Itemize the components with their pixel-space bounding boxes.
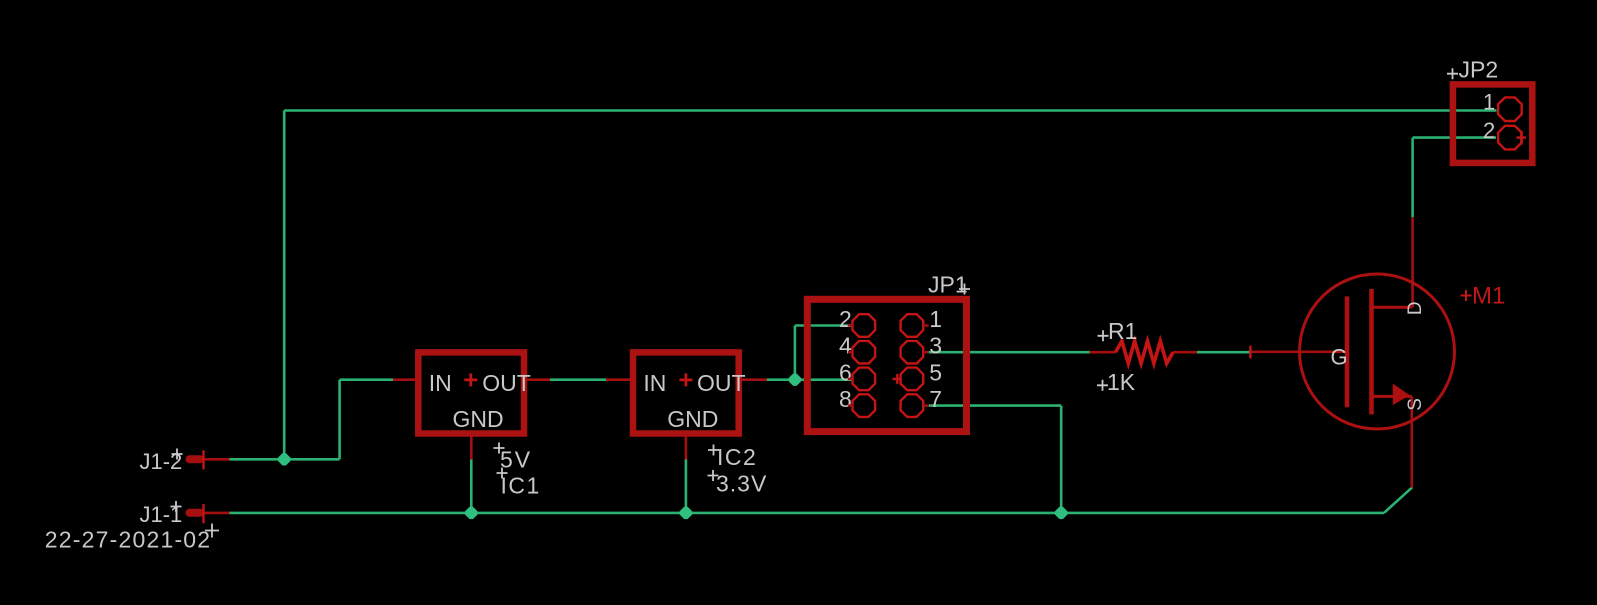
resistor R1 right lead: [1173, 351, 1197, 354]
svg-text:1K: 1K: [1107, 369, 1136, 395]
svg-text:OUT: OUT: [697, 370, 746, 396]
label JP2: [1447, 57, 1498, 83]
svg-text:IN: IN: [643, 370, 666, 396]
JP1 pin 2 circle: [853, 314, 876, 337]
M1 source branch: [1372, 395, 1412, 398]
wire horizontal to JP1 pin 2: [795, 324, 852, 327]
pin stub IC2 IN: [606, 378, 633, 381]
IC2 origin cross: [679, 373, 692, 386]
svg-text:D: D: [1405, 301, 1426, 315]
JP2 pin 2 circle: [1498, 126, 1522, 150]
M1 source arrow: [1394, 385, 1409, 404]
JP1 pin 1 circle: [901, 314, 924, 337]
JP1 pin 6 circle: [853, 368, 876, 391]
label JP1: [928, 272, 970, 298]
svg-text:GND: GND: [667, 406, 718, 432]
node junction IC2 OUT / JP1: [789, 374, 801, 386]
svg-text:R1: R1: [1108, 318, 1137, 344]
node junction VIN/J1-2: [278, 453, 290, 465]
flag J1-2: [186, 450, 205, 469]
svg-text:M1: M1: [1472, 283, 1505, 310]
svg-text:S: S: [1405, 398, 1426, 411]
pin lead J1-1 flag: [205, 512, 230, 515]
pin stub IC2 OUT: [739, 378, 767, 381]
JP1 pin 5 stub and cross: [893, 374, 902, 384]
svg-text:22-27-2021-02: 22-27-2021-02: [45, 527, 212, 553]
wire net VIN top horizontal to JP2 pin 1: [284, 109, 1496, 112]
wire JP1 pin 3 to R1: [929, 351, 1090, 354]
JP1 pin 7 circle: [901, 394, 924, 417]
wire JP1 pin 7 horizontal: [929, 404, 1061, 407]
wire IC2 GND vertical: [685, 459, 688, 513]
label 1K: [1097, 369, 1136, 395]
M1 gate bar: [1345, 296, 1350, 407]
wire GND bottom horizontal: [230, 512, 1385, 515]
svg-text:2: 2: [1483, 118, 1495, 143]
label 5V: [494, 443, 533, 473]
svg-text:IC1: IC1: [501, 473, 541, 499]
JP2 pin 1 circle: [1498, 97, 1522, 121]
label date 22-27-2021-02: [45, 524, 219, 553]
svg-text:GND: GND: [453, 406, 504, 432]
wire into IC1 IN: [340, 378, 393, 381]
label IC1: [497, 468, 541, 499]
pin stub IC1 OUT: [524, 378, 550, 381]
M1 drain branch: [1372, 306, 1412, 309]
connector JP2 box: [1453, 84, 1532, 162]
svg-text:5: 5: [929, 359, 942, 385]
svg-text:3: 3: [929, 333, 942, 359]
JP1 right pin stub: [923, 324, 929, 326]
wire M1 drain vertical red: [1411, 217, 1414, 307]
svg-text:G: G: [1331, 345, 1348, 370]
label R1: [1098, 318, 1138, 344]
svg-text:JP1: JP1: [928, 272, 968, 298]
svg-text:5V: 5V: [500, 447, 532, 473]
resistor R1 zigzag: [1116, 341, 1174, 363]
svg-text:4: 4: [839, 333, 852, 359]
svg-text:2: 2: [839, 306, 852, 332]
label 3.3V: [708, 470, 768, 497]
pin stub IC1 GND: [470, 434, 473, 460]
flag J1-1: [186, 504, 205, 523]
svg-text:1: 1: [1483, 90, 1495, 115]
wire IC1 OUT to IC2 IN: [550, 378, 606, 381]
wire M1 source vertical red: [1411, 396, 1414, 487]
node junction IC1 GND: [465, 507, 477, 519]
wire to JP2 pin 2: [1413, 136, 1496, 139]
wire J1-2 to IC1 horizontal: [230, 458, 340, 461]
wire vertical at node to JP1 pin 2: [794, 326, 797, 380]
svg-text:IC2: IC2: [717, 444, 757, 470]
svg-text:OUT: OUT: [482, 370, 531, 396]
node junction JP1 pin7 / GND: [1055, 507, 1067, 519]
IC1 origin cross: [464, 373, 477, 386]
JP1 right pin stub: [923, 404, 929, 406]
label J1-2: [140, 449, 183, 475]
svg-text:8: 8: [839, 386, 852, 412]
wire IC2 OUT to JP1 pin 6: [767, 378, 852, 381]
transistor M1 circle: [1300, 274, 1455, 429]
JP1 pin 8 circle: [853, 394, 876, 417]
svg-text:IN: IN: [429, 370, 452, 396]
M1 gate pin cross: [1249, 346, 1251, 359]
wire net VIN left vertical: [283, 111, 286, 460]
svg-text:3.3V: 3.3V: [716, 471, 767, 497]
wire vertical up to IC1 IN: [338, 380, 341, 460]
JP1 pin 4 stub: [848, 351, 853, 353]
connector JP1 box: [807, 299, 966, 431]
label IC2: [708, 444, 757, 470]
regulator IC2 box: [633, 352, 739, 433]
wire M1 drain vertical green segment: [1411, 138, 1414, 218]
JP1 pin 3 circle: [901, 341, 924, 364]
svg-text:J1-2: J1-2: [140, 449, 183, 474]
node junction IC2 GND: [680, 507, 692, 519]
JP1 pin 2 stub: [848, 324, 853, 326]
JP1 pin 6 stub: [848, 378, 853, 380]
wire IC1 GND vertical: [470, 459, 473, 513]
pin lead J1-2 flag: [205, 458, 230, 461]
pin stub IC1 IN: [393, 378, 418, 381]
label J1-1: [140, 501, 183, 527]
JP1 pin 8 stub: [848, 404, 853, 406]
pin stub IC2 GND: [685, 434, 688, 460]
svg-text:6: 6: [839, 359, 852, 385]
svg-text:1: 1: [929, 306, 942, 332]
JP1 pin 4 circle: [853, 341, 876, 364]
wire R1 to M1 gate green segment: [1197, 351, 1251, 354]
JP2 pin 2 connection cross: [1517, 131, 1527, 145]
svg-text:JP2: JP2: [1459, 57, 1499, 83]
regulator IC1 box: [418, 352, 524, 433]
resistor R1 left lead: [1090, 351, 1116, 354]
JP1 pin 5 circle: [901, 368, 924, 391]
M1 channel bar: [1369, 289, 1374, 415]
svg-text:7: 7: [929, 386, 942, 412]
label M1: [1461, 283, 1506, 310]
wire JP1 pin 7 vertical to GND net: [1060, 406, 1063, 513]
wire M1 gate lead red: [1250, 350, 1344, 353]
wire GND diagonal to M1 source: [1384, 487, 1412, 513]
JP1 right pin stub: [923, 351, 929, 353]
